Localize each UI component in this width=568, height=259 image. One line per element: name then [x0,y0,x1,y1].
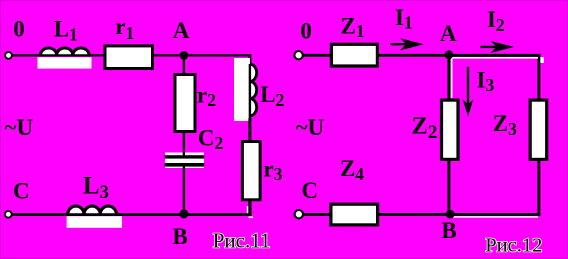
bottom wire: terminal C to corner [11,213,252,216]
svg-text:~U: ~U [296,115,325,140]
current arrow I3 [463,67,474,117]
svg-text:~U: ~U [5,115,34,140]
terminal C (left) [5,211,12,218]
inductor L3 [66,206,122,228]
wire top-right corner down to L2 [248,54,251,67]
current arrow I1 [390,38,424,50]
svg-text:0: 0 [300,19,312,44]
node A (right) [445,50,454,59]
white fringe below bottom wire right of B [453,216,538,218]
resistor r1 [105,46,153,69]
terminal 0 (left) [5,52,12,59]
node B [179,209,188,218]
bottom wire: terminal C through Z4 to node B to corner [301,213,540,216]
terminal 0 (right) [294,51,302,59]
capacitor C2 plates [165,155,205,166]
wire Z3 down to bottom corner [537,158,540,216]
node A [180,51,189,60]
wire top-left: terminal 0 to node A to corner [11,54,251,56]
white fringe below top wire right of A [451,57,544,98]
svg-text:Рис.12: Рис.12 [485,235,542,257]
svg-text:A: A [173,18,190,43]
wire r2 to capacitor C2 [183,131,185,156]
wire Z2 down to node B [447,158,450,214]
impedance Z4 [331,204,378,225]
svg-text:C: C [301,178,318,203]
impedance Z3 [530,100,547,159]
resistor r2 [175,75,195,132]
current arrow I2 [480,41,514,53]
wire r3 down to bottom wire [248,199,251,215]
wire corner down to Z3 [537,54,540,101]
terminal C (right) [295,210,303,218]
resistor r3 [242,142,260,200]
inductor L2 [234,58,257,121]
top wire: terminal 0 through Z1 to node A to corner [301,54,540,57]
svg-text:B: B [441,218,456,243]
impedance Z1 [331,44,377,66]
white fringe near r3 bottom corner [247,206,253,218]
inductor L1 [38,48,93,69]
node B (right) [446,210,455,219]
svg-text:C: C [13,178,30,203]
wire L2 to r3 [248,118,251,141]
svg-text:0: 0 [13,17,25,42]
svg-text:A: A [440,21,457,46]
svg-text:B: B [172,224,187,249]
impedance Z2 [442,100,459,159]
wire node A down to r2 [183,55,185,75]
wire C2 down to node B [183,166,185,215]
wire node A down to Z2 [447,55,450,101]
capacitor C2 white backing [165,153,204,169]
svg-text:Рис.11: Рис.11 [213,229,271,253]
